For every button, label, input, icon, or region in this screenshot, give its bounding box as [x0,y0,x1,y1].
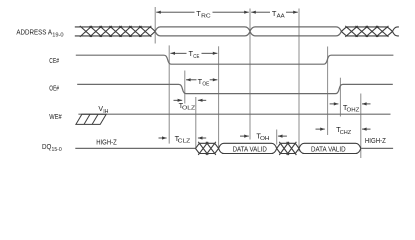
wire OE# waveform [77,84,393,93]
node TRC-start tick [154,7,156,44]
label TOH measurement [240,135,249,137]
wire DQ high-Z flat line (right) [361,147,393,149]
svg-text:CHZ: CHZ [340,130,352,136]
svg-text:DATA VALID: DATA VALID [311,144,346,153]
wire ADDRESS bus waveform: stable segment 2 [250,27,341,36]
svg-text:ADDRESS A: ADDRESS A [16,28,52,37]
svg-text:15-0: 15-0 [52,147,62,153]
label TCHZ measurement [316,128,325,130]
svg-text:OE: OE [202,82,209,88]
svg-text:CLZ: CLZ [178,139,191,145]
wire DQ high-Z flat line (left) [75,147,195,149]
label TCLZ measurement [159,137,167,139]
node data-valid-1 start line [218,46,220,149]
svg-text:HIGH-Z: HIGH-Z [96,137,117,146]
label TOHZ measurement [330,103,339,105]
node low-Z reference line [195,97,197,149]
node hi-Z reference line [360,94,362,159]
wire ADDRESS bus waveform: right open rails [393,27,399,36]
node CE-rise reference line [327,47,329,136]
svg-text:OLZ: OLZ [182,106,196,112]
wire DQ invalid crosshatch 1 [196,142,219,155]
svg-text:CE#: CE# [49,56,59,65]
svg-text:OH: OH [260,136,270,142]
svg-text:DQ: DQ [42,142,52,151]
wire ADDRESS bus waveform: right crosshatch [341,26,392,37]
svg-text:DATA VALID: DATA VALID [233,144,267,153]
node CE-fall reference line [168,45,170,143]
wire DQ data valid bubble 1 [219,143,277,153]
node OE-fall reference line [184,71,186,104]
node address-change line [249,9,251,140]
wire ADDRESS bus waveform: stable segment 1 [155,27,250,36]
label TRC measurement [156,11,194,13]
wire DQ data valid bubble 2 [299,143,361,153]
node TAA-end line [298,9,300,152]
label TOE measurement [186,79,197,81]
svg-text:OHZ: OHZ [347,108,360,114]
label TOLZ measurement [174,99,183,101]
svg-text:WE#: WE# [49,112,62,121]
svg-text:OE#: OE# [49,84,59,93]
svg-text:AA: AA [277,14,285,20]
svg-text:CE: CE [193,54,199,60]
svg-text:19-0: 19-0 [52,32,63,38]
wire WE# don't-care hatched parallelogram [76,114,106,124]
label TAA measurement [251,11,270,13]
node OE-rise reference line [339,78,341,117]
svg-text:RC: RC [201,14,211,20]
wire ADDRESS bus waveform: left crosshatch [75,26,155,37]
svg-text:HIGH-Z: HIGH-Z [365,136,386,145]
label TCE measurement [170,52,186,54]
wire DQ invalid crosshatch 2 [277,142,299,155]
wire WE# waveform line [78,113,390,115]
svg-text:IH: IH [103,109,108,115]
wire CE# waveform [76,55,394,64]
node TOH end tick [276,130,278,145]
